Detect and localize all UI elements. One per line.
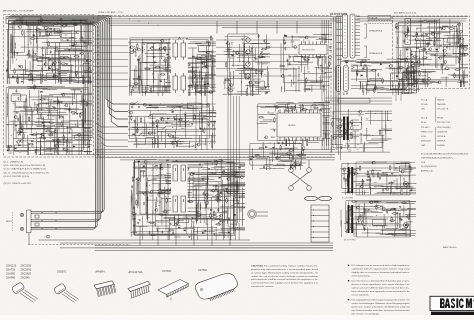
filter amp circuitry right — [279, 34, 332, 92]
signal bus: elbow over EQ section, down, L-bend to input jacks — [6, 16, 128, 229]
package drawing: TA7630 flat pack — [158, 280, 189, 301]
speaker output jack A — [404, 182, 409, 187]
fuse F1 F2 — [305, 196, 332, 200]
transistor substitution notes — [4, 161, 49, 186]
voltage selector dashed box — [368, 20, 393, 23]
dashed ground return line — [28, 244, 130, 246]
black footer bar — [431, 312, 474, 315]
tone IC surroundings — [257, 102, 331, 146]
speaker terminal strip connectors CN1 CN2 — [336, 13, 360, 60]
mid-right vertical bus — [334, 17, 341, 160]
lower connector strips CN3 CN4 — [335, 65, 351, 93]
tone amp stage box 1 — [142, 43, 168, 92]
label SPEAKERS B — [364, 46, 383, 58]
power transformer T1 core bars — [336, 117, 359, 141]
IC U1 protector with pins — [298, 42, 329, 59]
wires EQ section to tone section — [94, 39, 129, 87]
rectifier bridge D1-D4 — [289, 160, 312, 190]
relay A transformer core bars — [348, 167, 354, 193]
output transistor pairs table — [6, 264, 32, 280]
section border B (tone amp) — [98, 16, 331, 158]
speaker relay circuit B — [341, 201, 416, 237]
speaker output jack B — [404, 223, 409, 228]
package drawing: uPA68H SIP zipper — [94, 281, 116, 297]
input jack connector J1 — [6, 210, 56, 245]
mid horizontal interconnect rails — [39, 150, 391, 160]
parts legend table — [421, 97, 451, 150]
wiring note lines — [421, 153, 468, 173]
label SPEAKERS A — [364, 24, 383, 38]
EQ amp circuitry (right channel) — [6, 84, 92, 155]
section border A (phono/EQ amp) — [4, 15, 94, 158]
top horizontal wire bus — [100, 17, 468, 34]
speaker relay circuit A — [340, 161, 416, 195]
package drawing: uPC1237HA SIP — [128, 281, 150, 298]
power amp output stage — [131, 159, 246, 240]
transistor column Q20-Q23 — [246, 38, 250, 78]
IC U2 TA7630 tone IC with pins — [276, 110, 323, 142]
driver stage box — [140, 164, 168, 214]
relay block B enclosure — [344, 203, 410, 242]
AC plug P1 — [248, 210, 268, 218]
EQ amp circuitry (left channel) — [6, 18, 92, 84]
package drawing: 2SD871 — [53, 283, 78, 303]
fuse holder box — [368, 16, 391, 20]
CAUTION paragraph — [251, 265, 319, 289]
power transistors Q-out on heatsink — [171, 163, 188, 214]
bottom power rails — [39, 226, 334, 250]
switch bank strip — [129, 103, 216, 148]
header box: board ref — [6, 16, 41, 24]
section B right edge bus — [322, 20, 329, 150]
relay B transformer core bars — [348, 205, 354, 233]
tone amp circuitry upper — [128, 35, 216, 96]
power supply circuitry — [249, 141, 306, 170]
AC primary / noise filter parts — [332, 109, 392, 152]
model label plate BASIC M1 — [430, 296, 474, 310]
electrolytic capacitor bank C1-C4 — [171, 40, 188, 96]
package drawing: TA7640 large pack — [195, 274, 237, 301]
tone amp stage box 2 — [196, 58, 214, 92]
series resistor row on AC bus — [331, 13, 347, 14]
P.B. amp circuitry — [395, 18, 469, 87]
switch bank rails — [128, 101, 216, 141]
section border C (P.B. amp) — [393, 16, 470, 89]
power transformer T1 winding block — [311, 205, 329, 242]
vertical interconnect bus at x=230 — [228, 96, 239, 238]
bus branch staircase to switch strip — [96, 123, 129, 147]
interconnect wires tone to filter section — [216, 40, 300, 76]
connector strips on P.B. amp board — [391, 19, 417, 94]
tone block drop wires to rails — [196, 60, 213, 150]
P.B. board drop wires to relay circuits — [396, 89, 401, 102]
muting circuit — [334, 57, 420, 95]
AC feed rails to transformer — [325, 98, 392, 104]
inner vertical bus at EQ right edge — [84, 21, 92, 148]
service notes EN FR DE — [348, 264, 411, 315]
relay block A enclosure — [342, 162, 410, 200]
package drawing: TO-92 transistor group — [11, 282, 38, 303]
filter amp circuitry left — [223, 34, 271, 96]
